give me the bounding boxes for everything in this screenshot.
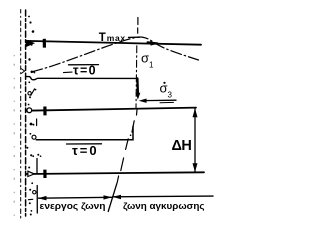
svg-text:τ=0: τ=0: [72, 143, 99, 158]
svg-text:τ=0: τ=0: [73, 64, 97, 78]
svg-text:Tmax: Tmax: [99, 32, 126, 44]
svg-text:ενεργος ζωνη: ενεργος ζωνη: [40, 201, 106, 211]
svg-text:ζωνη αγκυρωσης: ζωνη αγκυρωσης: [123, 201, 205, 211]
svg-text:ΔH: ΔH: [172, 138, 192, 154]
